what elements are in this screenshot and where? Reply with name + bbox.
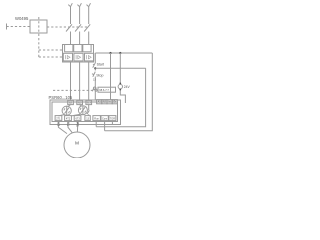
svg-text:13: 13 (86, 117, 89, 120)
svg-text:2T1: 2T1 (56, 117, 61, 120)
svg-text:4T2: 4T2 (66, 117, 71, 120)
svg-text:Stop: Stop (96, 74, 103, 78)
svg-text:Start: Start (97, 63, 104, 67)
svg-text:M: M (75, 140, 79, 146)
svg-text:6T3: 6T3 (75, 117, 80, 120)
svg-text:TOR: TOR (110, 117, 115, 120)
svg-text:1L1: 1L1 (68, 102, 73, 105)
svg-text:3L2: 3L2 (78, 102, 83, 105)
svg-text:Com: Com (102, 117, 107, 120)
svg-text:W0495: W0495 (15, 16, 29, 21)
svg-text:W1: W1 (76, 122, 80, 127)
svg-text:U1: U1 (56, 122, 60, 126)
svg-text:Run: Run (94, 117, 99, 120)
svg-text:98.6-7.7: 98.6-7.7 (99, 88, 109, 92)
svg-text:13: 13 (93, 79, 96, 82)
svg-text:Er: Er (114, 101, 117, 104)
svg-text:V1: V1 (66, 122, 70, 126)
svg-text:PSR60...105: PSR60...105 (49, 95, 73, 100)
svg-text:24V: 24V (124, 85, 131, 89)
svg-text:5L3: 5L3 (87, 102, 92, 105)
